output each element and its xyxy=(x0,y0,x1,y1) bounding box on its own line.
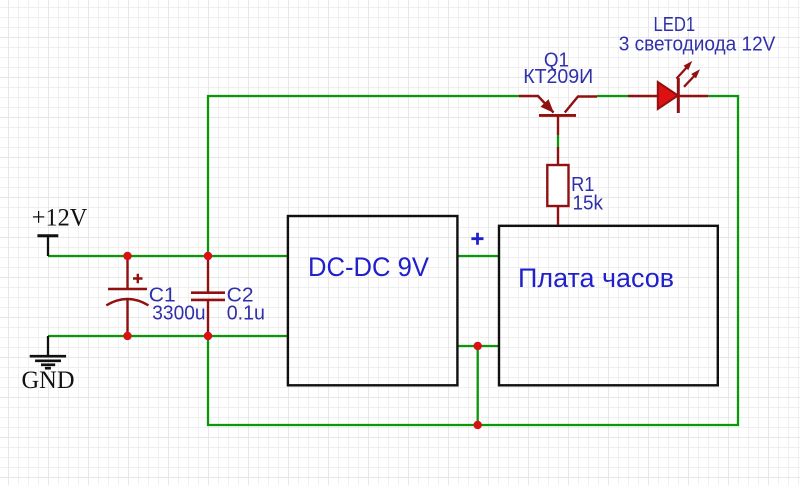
junction C2 top xyxy=(204,252,212,260)
capacitor C1 (electrolytic) xyxy=(106,256,148,336)
LED1 emission arrow 1 xyxy=(677,61,693,79)
junction C2 bottom xyxy=(204,332,212,340)
junction bottom rail xyxy=(474,421,482,429)
ground GND symbol xyxy=(30,336,66,368)
svg-text:0.1u: 0.1u xyxy=(227,302,265,324)
svg-text:15k: 15k xyxy=(573,193,604,215)
wire top rail from +12V to DC-DC left xyxy=(48,255,287,257)
LED1 emission arrow 2 xyxy=(684,69,700,87)
junction C1 bottom xyxy=(123,332,131,340)
block clock board (Плата часов) xyxy=(499,226,718,385)
svg-text:КТ209И: КТ209И xyxy=(523,66,593,88)
block U1 DC-DC 9V xyxy=(288,216,458,385)
svg-text:3300u: 3300u xyxy=(152,302,205,324)
capacitor C2 xyxy=(191,256,225,336)
svg-text:3 светодиода 12V: 3 светодиода 12V xyxy=(619,33,776,55)
plus polarity mark xyxy=(471,233,483,245)
wire top loop: left vertical, top run, right vertical, bottom run xyxy=(208,96,519,256)
wire LED to right vertical down to bottom xyxy=(208,96,738,425)
wire collector to LED xyxy=(597,95,628,97)
svg-text:DC-DC 9V: DC-DC 9V xyxy=(308,252,429,282)
svg-text:+12V: +12V xyxy=(32,204,88,231)
wire DC-DC minus output to clock board xyxy=(458,345,498,347)
power +12V symbol xyxy=(37,236,58,256)
wire DC-DC + output to clock board xyxy=(458,255,498,257)
wire transistor base to R1 xyxy=(557,135,559,147)
LED1 diode xyxy=(628,78,708,113)
svg-text:GND: GND xyxy=(22,367,75,394)
wire node minus vertical to bottom rail xyxy=(477,346,479,425)
svg-text:Плата часов: Плата часов xyxy=(518,263,674,293)
transistor Q1 KT209I (PNP) xyxy=(519,96,597,135)
wire bottom rail from GND to DC-DC left xyxy=(48,335,287,337)
junction C1 top xyxy=(123,252,131,260)
resistor R1 xyxy=(547,147,568,225)
junction minus node xyxy=(474,342,482,350)
